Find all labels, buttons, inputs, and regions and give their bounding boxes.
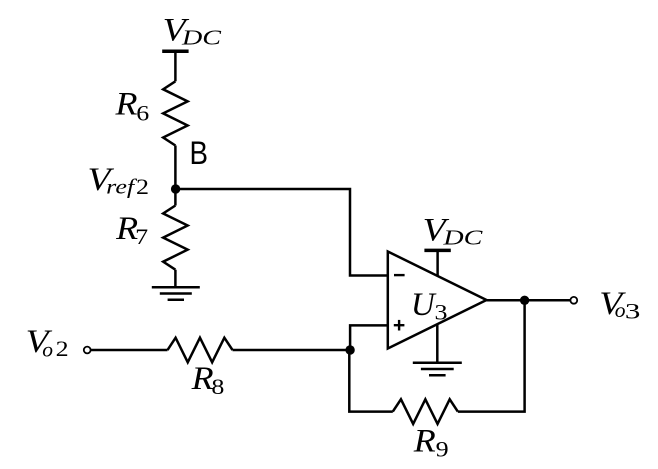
- op-amp U3 triangle: [388, 252, 487, 349]
- label Vo2: [26, 324, 69, 361]
- svg-text:o: o: [42, 337, 53, 361]
- wire: [174, 270, 177, 288]
- svg-text:ref: ref: [106, 175, 138, 199]
- label R9: [413, 424, 449, 462]
- svg-text:R: R: [191, 361, 214, 397]
- op-amp minus sign: [394, 274, 405, 276]
- supply VDC T-bar (op-amp): [424, 249, 450, 253]
- svg-text:9: 9: [436, 437, 449, 462]
- label VDC (top): [163, 12, 222, 49]
- label R6: [114, 87, 149, 126]
- ground (below R7): [152, 287, 200, 300]
- terminal Vo2: [84, 347, 91, 354]
- resistor R6: [163, 81, 188, 145]
- svg-text:3: 3: [435, 300, 448, 325]
- label R7: [115, 211, 148, 249]
- svg-text:3: 3: [625, 299, 641, 324]
- svg-text:8: 8: [211, 374, 224, 399]
- svg-text:2: 2: [56, 336, 69, 361]
- wire: [174, 146, 177, 190]
- label Vo3: [599, 286, 640, 323]
- svg-text:B: B: [190, 135, 209, 171]
- resistor R8: [168, 338, 233, 363]
- label U3 (op-amp): [411, 287, 448, 325]
- supply VDC T-bar (top rail): [162, 49, 188, 53]
- svg-text:DC: DC: [181, 25, 222, 49]
- svg-text:U: U: [411, 287, 437, 323]
- terminal Vo3: [570, 297, 577, 304]
- svg-text:7: 7: [135, 224, 148, 249]
- wire to non-inverting input: [350, 325, 388, 350]
- svg-text:R: R: [413, 424, 436, 460]
- node junction (+ input / feedback): [345, 345, 354, 354]
- ground (op-amp): [413, 363, 462, 375]
- label Vref2: [88, 162, 150, 199]
- svg-text:2: 2: [136, 174, 149, 199]
- wire Vref2 to op-amp inverting input: [175, 189, 387, 276]
- node output junction: [520, 296, 529, 305]
- resistor R9: [393, 399, 458, 424]
- wire: [91, 349, 168, 352]
- wire: [233, 349, 351, 352]
- label R8: [191, 361, 225, 399]
- label VDC (op-amp): [423, 213, 484, 250]
- op-amp plus sign: [394, 320, 405, 331]
- wire: [436, 250, 439, 276]
- wire op-amp to ground: [436, 324, 439, 363]
- wire: [174, 189, 177, 206]
- wire feedback: output down and left to R9: [458, 300, 525, 411]
- wire feedback: left and up to + node: [349, 350, 393, 412]
- node Vref2 junction: [171, 184, 180, 193]
- wire output: [487, 299, 571, 302]
- wire: [174, 51, 177, 81]
- resistor R7: [163, 206, 188, 270]
- svg-text:DC: DC: [442, 225, 483, 249]
- svg-text:R: R: [114, 87, 137, 123]
- svg-text:6: 6: [136, 101, 149, 126]
